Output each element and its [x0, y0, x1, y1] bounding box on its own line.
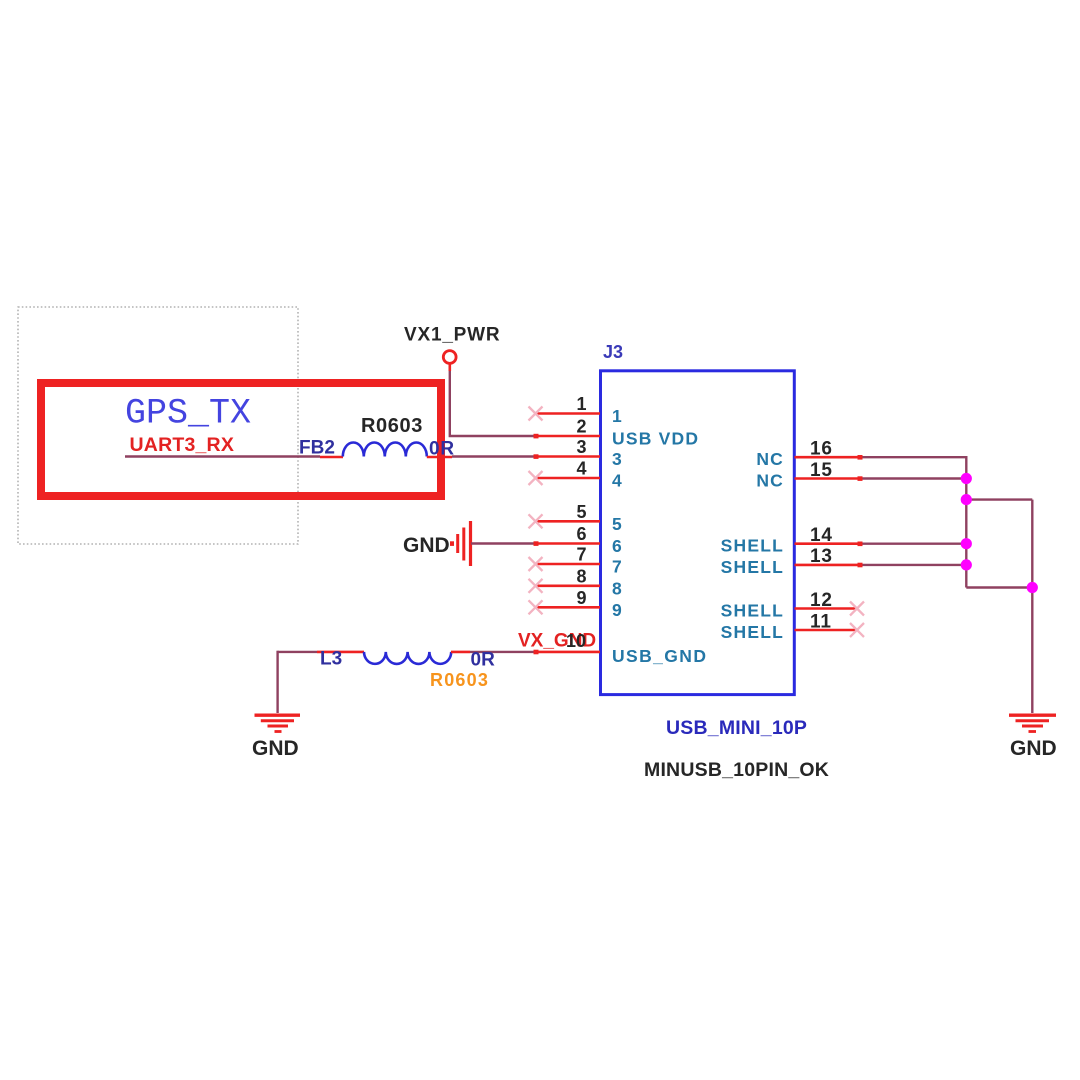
- pin 6 stub: [536, 542, 600, 545]
- svg-text:USB_MINI_10P: USB_MINI_10P: [666, 717, 807, 739]
- svg-text:J3: J3: [603, 342, 623, 362]
- no-connect X pin 7: [529, 557, 543, 571]
- pin 14 stub: [795, 542, 861, 545]
- svg-text:9: 9: [612, 600, 622, 620]
- svg-text:2: 2: [576, 417, 586, 437]
- no-connect X pin 5: [529, 514, 543, 528]
- pin segment below power circle: [448, 364, 451, 371]
- wire pin 14 to bus: [860, 543, 966, 545]
- wire branch lower to right rail: [966, 586, 1032, 588]
- svg-text:12: 12: [810, 590, 833, 611]
- svg-text:SHELL: SHELL: [721, 601, 784, 621]
- pin 10 stub: [536, 651, 600, 654]
- pin 9 stub: [536, 606, 600, 609]
- svg-text:GND: GND: [403, 534, 450, 557]
- svg-text:11: 11: [810, 611, 832, 632]
- pin-end tick pin 15: [858, 476, 863, 481]
- pin segment FB2 right: [427, 456, 452, 459]
- red highlight box: [41, 383, 441, 496]
- pin segment L3 right: [451, 651, 470, 654]
- svg-text:USB VDD: USB VDD: [612, 429, 699, 449]
- pin 3 stub: [536, 455, 600, 458]
- svg-text:R0603: R0603: [361, 415, 423, 437]
- bottom-left ground symbol: bar 1: [255, 714, 301, 717]
- bottom-left ground symbol: bar 2: [261, 719, 294, 722]
- svg-text:VX1_PWR: VX1_PWR: [404, 325, 500, 346]
- junction dot pin 14: [961, 538, 972, 549]
- no-connect X pin 12: [850, 602, 864, 616]
- svg-text:6: 6: [576, 524, 586, 544]
- pin 12 stub: [795, 607, 859, 610]
- junction dot lower branch: [1027, 582, 1038, 593]
- svg-text:GND: GND: [1010, 737, 1057, 760]
- svg-text:15: 15: [810, 460, 833, 481]
- pin-end tick pin 10: [534, 650, 539, 655]
- connector body J3: [601, 371, 795, 695]
- pin 7 stub: [536, 563, 600, 566]
- junction dot upper branch: [961, 494, 972, 505]
- pin 4 stub: [536, 477, 600, 480]
- bottom-right ground symbol: bar 3: [1022, 725, 1043, 728]
- wire pin 10 run: [470, 651, 536, 653]
- svg-text:1: 1: [576, 394, 586, 414]
- pin 2 stub: [536, 435, 600, 438]
- svg-text:3: 3: [576, 437, 586, 457]
- svg-text:1: 1: [612, 406, 622, 426]
- svg-text:6: 6: [612, 536, 622, 556]
- svg-text:10: 10: [566, 631, 586, 651]
- svg-text:5: 5: [612, 514, 622, 534]
- wire UART3_RX to FB2: [125, 455, 320, 457]
- svg-text:4: 4: [576, 459, 586, 479]
- svg-text:USB_GND: USB_GND: [612, 646, 707, 666]
- ground symbol at pin 6: bar mid: [462, 528, 465, 561]
- wire down to bottom-left GND: [276, 651, 278, 713]
- ground symbol at pin 6: bar small: [456, 534, 459, 553]
- svg-text:SHELL: SHELL: [721, 557, 784, 577]
- svg-text:3: 3: [612, 449, 622, 469]
- wire GND to pin 6: [471, 542, 536, 544]
- svg-text:NC: NC: [756, 471, 784, 491]
- bottom-right ground symbol: bar 2: [1016, 719, 1050, 722]
- junction dot pin 13: [961, 559, 972, 570]
- svg-text:L3: L3: [320, 649, 342, 670]
- svg-text:GPS_TX: GPS_TX: [125, 394, 251, 434]
- no-connect X pin 9: [529, 600, 543, 614]
- svg-text:FB2: FB2: [299, 438, 335, 459]
- pin 1 stub: [536, 412, 600, 415]
- no-connect X pin 11: [850, 623, 864, 637]
- pin-end tick pin 16: [858, 455, 863, 460]
- svg-text:0R: 0R: [471, 650, 496, 671]
- svg-text:UART3_RX: UART3_RX: [130, 434, 235, 456]
- svg-text:14: 14: [810, 525, 833, 546]
- svg-text:8: 8: [576, 566, 586, 586]
- svg-text:SHELL: SHELL: [721, 622, 784, 642]
- ground symbol at pin 6: bar large: [469, 521, 472, 566]
- svg-text:NC: NC: [756, 449, 784, 469]
- bottom-right ground symbol: bar 4: [1029, 730, 1037, 733]
- pin-end tick pin 14: [858, 542, 863, 547]
- pin-end tick pin 6: [534, 541, 539, 546]
- bottom-right ground symbol: bar 1: [1009, 714, 1056, 717]
- svg-text:8: 8: [612, 578, 622, 598]
- wire pin 13 to bus: [860, 564, 966, 566]
- pin segment FB2 left: [320, 456, 343, 459]
- svg-text:7: 7: [576, 545, 586, 565]
- junction dot pin 15: [961, 473, 972, 484]
- svg-text:13: 13: [810, 546, 833, 567]
- wire right rail down to GND: [1031, 500, 1033, 713]
- svg-text:SHELL: SHELL: [721, 536, 784, 556]
- pin 11 stub: [795, 629, 859, 632]
- pin 16 stub: [795, 456, 861, 459]
- pin-end tick pin 13: [858, 563, 863, 568]
- inductor L3: [364, 652, 451, 664]
- ferrite bead FB2: [343, 443, 427, 457]
- wire FB2 to pin 3: [452, 455, 536, 457]
- pin 13 stub: [795, 564, 861, 567]
- no-connect X pin 8: [529, 579, 543, 593]
- svg-text:5: 5: [576, 502, 586, 522]
- svg-text:16: 16: [810, 439, 833, 460]
- svg-text:MINUSB_10PIN_OK: MINUSB_10PIN_OK: [644, 759, 829, 781]
- pin 15 stub: [795, 477, 861, 480]
- pin-end tick pin 3: [534, 454, 539, 459]
- wire pin 16 to bus: [860, 457, 966, 587]
- bottom-left ground symbol: bar 3: [268, 725, 289, 728]
- power port circle VX1_PWR: [443, 351, 456, 364]
- svg-text:4: 4: [612, 471, 622, 491]
- svg-text:7: 7: [612, 557, 622, 577]
- pin-end tick pin 2: [534, 434, 539, 439]
- pin segment L3 left: [317, 651, 364, 654]
- no-connect X pin 1: [529, 407, 543, 421]
- svg-text:GND: GND: [252, 737, 299, 760]
- wire L3 left to GND corner: [278, 651, 317, 653]
- ground symbol at pin 6: dot: [450, 541, 454, 546]
- pin 8 stub: [536, 584, 600, 587]
- svg-text:9: 9: [576, 588, 586, 608]
- pin 5 stub: [536, 520, 600, 523]
- no-connect X pin 4: [529, 471, 543, 485]
- dotted outline box: [18, 307, 298, 544]
- wire branch upper to right rail: [966, 498, 1032, 500]
- wire pin 15 to bus: [860, 477, 966, 479]
- bottom-left ground symbol: bar 4: [275, 730, 282, 733]
- wire VX1_PWR to pin 2: [450, 371, 536, 436]
- svg-text:R0603: R0603: [430, 670, 489, 690]
